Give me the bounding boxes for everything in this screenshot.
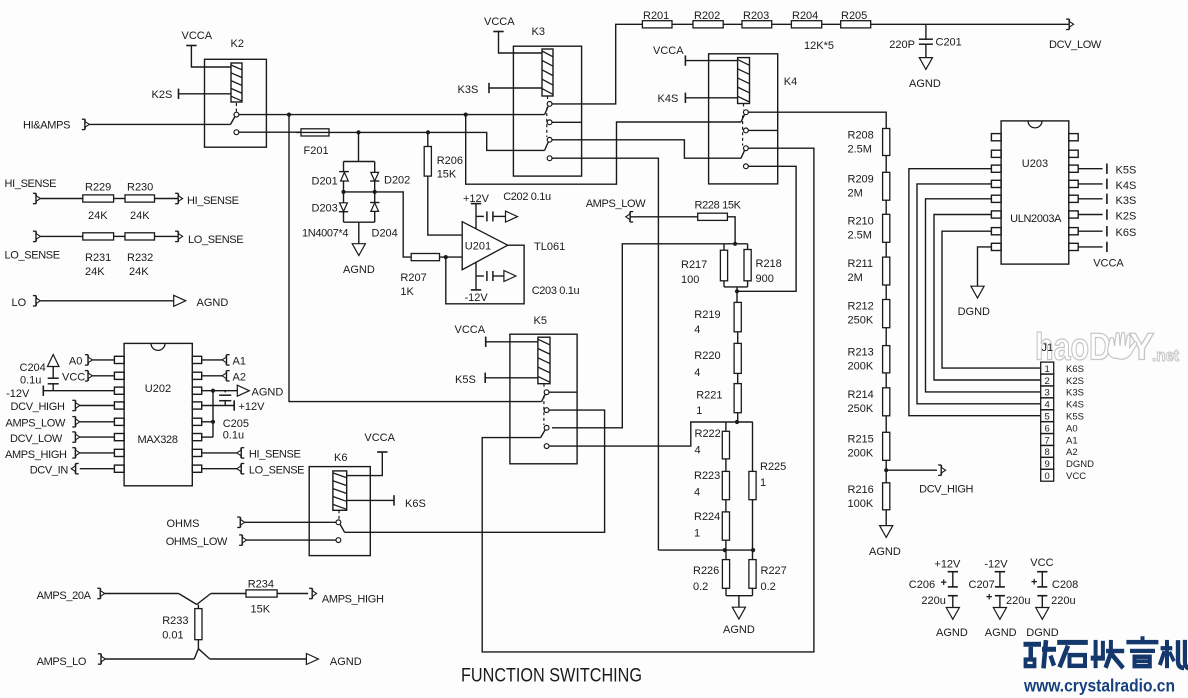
wire R204-R205 — [822, 23, 841, 25]
svg-text:ULN2003A: ULN2003A — [1010, 213, 1062, 225]
wire R231-R232 — [114, 235, 125, 237]
relay K4 coil — [738, 58, 750, 104]
svg-text:DGND: DGND — [1066, 459, 1094, 470]
ground arrow (C202) — [506, 211, 518, 222]
svg-text:R225: R225 — [760, 461, 786, 473]
svg-text:DCV_LOW: DCV_LOW — [10, 433, 63, 445]
svg-text:D203: D203 — [312, 203, 338, 215]
connector J1 label — [1042, 342, 1054, 354]
resistor R225 — [749, 422, 756, 500]
svg-text:AMPS_20A: AMPS_20A — [37, 590, 92, 602]
svg-text:8: 8 — [1045, 447, 1050, 458]
svg-text:3: 3 — [1045, 388, 1050, 399]
relay K4 box — [709, 54, 778, 184]
svg-text:R203: R203 — [743, 10, 769, 22]
svg-text:K2S: K2S — [152, 89, 173, 101]
resistor R219 — [734, 302, 741, 331]
svg-text:VCC: VCC — [62, 372, 85, 384]
relay K2 contact 2 — [234, 130, 239, 135]
svg-text:A0: A0 — [69, 356, 82, 368]
svg-text:2M: 2M — [848, 272, 863, 284]
node K6S (U203 out) — [1078, 226, 1136, 239]
relay K3 box — [513, 46, 581, 176]
svg-text:24K: 24K — [129, 266, 149, 278]
svg-text:DCV_HIGH: DCV_HIGH — [919, 484, 973, 496]
svg-text:K4S: K4S — [658, 93, 679, 105]
resistor R222 label — [695, 428, 721, 457]
connector J1 pin labels — [1066, 364, 1094, 482]
svg-text:DCV_LOW: DCV_LOW — [1049, 39, 1102, 51]
svg-text:AMPS_LOW: AMPS_LOW — [586, 198, 647, 210]
relay K2 label — [231, 38, 244, 50]
capacitor C204 — [47, 355, 59, 391]
wire R202-R203 — [723, 23, 742, 25]
svg-text:R206: R206 — [437, 155, 463, 167]
resistor R216 — [883, 483, 890, 510]
power -12V (C207) — [984, 559, 1008, 571]
svg-text:VCCA: VCCA — [1093, 258, 1124, 270]
wire bridge left upper — [343, 162, 345, 172]
wire bridge top stub — [358, 132, 360, 161]
svg-text:LO_SENSE: LO_SENSE — [5, 250, 60, 262]
resistor R201 label — [643, 10, 669, 22]
svg-text:4: 4 — [695, 445, 701, 457]
svg-text:4: 4 — [1045, 400, 1050, 411]
wire R217R218 bottom bar — [724, 281, 748, 294]
resistor R204 label — [792, 10, 818, 22]
svg-text:LO: LO — [12, 297, 27, 309]
node A0 — [69, 355, 115, 368]
wire R216 to AGND — [885, 510, 887, 526]
svg-text:VCCA: VCCA — [182, 30, 213, 42]
wire U202 pin4R to +12V — [202, 400, 265, 413]
svg-text:VCCA: VCCA — [364, 432, 395, 444]
wire fuse to K3 lower common — [334, 130, 545, 150]
wire R208 to R209 — [885, 156, 887, 173]
svg-text:0.1u: 0.1u — [223, 430, 244, 442]
svg-text:0.2: 0.2 — [693, 581, 708, 593]
svg-text:D202: D202 — [384, 175, 410, 187]
node VCC (U202) — [62, 371, 114, 384]
svg-text:AGND: AGND — [936, 627, 968, 639]
svg-text:MAX328: MAX328 — [138, 434, 178, 446]
relay K4 contact 1 — [744, 110, 749, 115]
svg-text:F201: F201 — [304, 145, 329, 157]
capacitor C208 — [1031, 572, 1048, 608]
svg-text:C206: C206 — [909, 579, 935, 591]
IC U202 part MAX328 — [138, 434, 178, 446]
svg-text:AGND: AGND — [869, 546, 901, 558]
svg-text:K2S: K2S — [1066, 376, 1084, 387]
svg-text:15K: 15K — [251, 604, 271, 616]
resistor R223 label — [694, 470, 720, 499]
svg-text:K4: K4 — [784, 76, 797, 88]
wire bridge left lower — [343, 192, 345, 203]
resistor R211 label — [848, 258, 873, 284]
svg-text:-12V: -12V — [6, 388, 30, 400]
wire K3 contact4 down to R-ladder — [552, 158, 658, 550]
svg-text:AGND: AGND — [343, 264, 375, 276]
node LO_SENSE (U202) — [202, 464, 304, 477]
svg-text:K5S: K5S — [455, 374, 476, 386]
svg-text:K5: K5 — [534, 315, 547, 327]
svg-text:R202: R202 — [694, 10, 720, 22]
relay K4 contact 2 — [744, 128, 749, 133]
ground arrow AGND (U202) — [237, 385, 283, 398]
diode D201 — [339, 172, 349, 192]
wire R234 to AMPS_HIGH — [277, 593, 308, 595]
capacitor C201 labels — [889, 37, 961, 52]
node AMPS_LOW mid — [586, 198, 647, 222]
svg-text:2.5M: 2.5M — [848, 144, 872, 156]
resistor R214 label — [848, 389, 874, 415]
wire K5 contact1 stub — [549, 391, 577, 393]
wire bridge bottom bar — [344, 221, 375, 223]
power +12V (U201) — [463, 193, 490, 229]
power VCC (C208) — [1030, 557, 1053, 569]
svg-text:R213: R213 — [848, 347, 874, 359]
wire K2K3 junction jog to K4 common1 — [466, 115, 741, 185]
resistor R220 — [734, 343, 741, 373]
svg-text:0.1u: 0.1u — [20, 375, 41, 387]
relay K3 contact 2 — [547, 120, 552, 125]
svg-text:R218: R218 — [756, 258, 782, 270]
svg-text:+12V: +12V — [239, 401, 266, 413]
ground AGND (ladder) — [723, 607, 755, 636]
svg-text:K6S: K6S — [1116, 227, 1137, 239]
relay K3 coil — [542, 49, 553, 96]
diode D204 — [370, 203, 379, 223]
title FUNCTION SWITCHING — [461, 665, 642, 687]
wire R203-R204 — [772, 23, 792, 25]
node K5S — [455, 373, 538, 386]
svg-text:-12V: -12V — [465, 292, 489, 304]
svg-text:R226: R226 — [693, 565, 719, 577]
resistor R230 — [125, 195, 155, 202]
wire AMPS_LOW to R228 — [630, 216, 698, 218]
relay K3 contact 3 — [547, 137, 552, 142]
ground DGND (C208) — [1026, 608, 1058, 640]
diode bridge value 1N4007*4 — [302, 228, 348, 240]
resistor R232 label — [127, 252, 153, 278]
node K6S — [347, 495, 426, 510]
resistor R211 — [883, 257, 890, 285]
svg-text:AMPS_LOW: AMPS_LOW — [6, 417, 67, 429]
svg-text:200K: 200K — [848, 447, 874, 459]
relay K3 blade 2 — [545, 142, 549, 151]
node K2S (coil drive) — [152, 89, 232, 101]
relay K5 blade 2 — [541, 430, 546, 438]
svg-text:R216: R216 — [848, 484, 874, 496]
svg-text:A1: A1 — [1066, 435, 1078, 446]
wire R211 to R212 — [885, 285, 887, 300]
wire bridge right upper — [374, 162, 376, 173]
resistor R206 label — [437, 155, 463, 181]
ground AGND (C207) — [985, 608, 1017, 640]
capacitor C206 — [941, 572, 959, 608]
capacitor C203 — [476, 271, 504, 281]
relay K4 contact 4 — [744, 164, 749, 169]
relay K2 contact NO — [234, 112, 239, 117]
svg-text:250K: 250K — [848, 403, 874, 415]
ground AGND (C201) — [909, 58, 941, 90]
svg-text:VCCA: VCCA — [653, 45, 684, 57]
resistor R221 — [734, 384, 741, 413]
svg-text:4: 4 — [694, 367, 700, 379]
wire OHMS_LOW to K6 — [247, 539, 336, 541]
svg-text:D204: D204 — [372, 228, 398, 240]
svg-text:R201: R201 — [643, 10, 669, 22]
svg-text:4: 4 — [694, 487, 700, 499]
wire R228 to divider — [727, 217, 735, 244]
wire U202 pin6R — [202, 436, 213, 438]
capacitor C207 — [986, 572, 1005, 608]
svg-text:R204: R204 — [792, 10, 818, 22]
resistor R215 — [883, 432, 890, 460]
wire HI&AMPS to K2 common — [89, 123, 230, 125]
wire harness U203-J1 (K5S) — [909, 169, 1041, 416]
svg-text:K4S: K4S — [1116, 180, 1137, 192]
svg-text:A0: A0 — [1066, 423, 1078, 434]
wire R206 to op-amp +input — [428, 176, 462, 235]
node AMPS_LO — [37, 654, 106, 668]
svg-text:4: 4 — [694, 324, 700, 336]
relay K6 coil — [333, 471, 347, 510]
svg-text:100K: 100K — [848, 498, 874, 510]
svg-text:HI&AMPS: HI&AMPS — [23, 120, 70, 132]
node OHMS — [167, 517, 245, 530]
op-amp U201 label — [465, 241, 491, 253]
svg-text:K5S: K5S — [1116, 165, 1137, 177]
wire R232 right — [155, 235, 179, 237]
diode D202 — [370, 172, 379, 192]
wire U202 pin3R to AGND — [202, 389, 238, 393]
relay K6 contact 2 — [336, 538, 341, 543]
svg-text:R205: R205 — [841, 10, 867, 22]
wire R206 top stub — [427, 132, 429, 146]
resistor R212 — [883, 300, 890, 328]
wire R213 to R214 — [885, 373, 887, 388]
relay K6 box — [309, 467, 370, 556]
svg-text:R227: R227 — [761, 565, 787, 577]
svg-text:+: + — [941, 577, 947, 589]
svg-text:+12V: +12V — [934, 559, 961, 571]
svg-text:R228 15K: R228 15K — [695, 200, 742, 212]
power +12V (C206) — [934, 559, 961, 571]
wire R214 to R215 — [885, 416, 887, 433]
resistor R205 label — [841, 10, 867, 22]
svg-text:K4S: K4S — [1066, 400, 1084, 411]
resistor R234 label — [248, 579, 274, 616]
resistor R204 — [791, 21, 821, 28]
wire K5 contact2 to K6 output — [345, 410, 605, 532]
resistor R208 label — [848, 130, 874, 156]
svg-text:HI_SENSE: HI_SENSE — [249, 449, 301, 461]
svg-text:C202 0.1u: C202 0.1u — [503, 191, 551, 203]
wire bridge middle bar — [341, 190, 376, 194]
IC U202 pin boxes — [114, 356, 201, 472]
svg-text:HI_SENSE: HI_SENSE — [5, 178, 57, 190]
resistor R224 — [722, 512, 729, 540]
wire ladder bottom bar — [658, 548, 755, 552]
wire harness U203-J1 (K6S) — [942, 231, 1041, 368]
wire HI_SENSE left — [40, 198, 82, 200]
svg-text:R232: R232 — [127, 252, 153, 264]
resistor R224 label — [694, 511, 720, 540]
wire node down to R219 — [736, 291, 738, 302]
wire bridge to R207 — [375, 192, 412, 257]
ground DGND (U203) — [958, 286, 990, 318]
resistor R218 — [744, 244, 751, 281]
resistor R231 label — [85, 252, 111, 278]
wire K4 contact4 to R217 bottom node — [737, 166, 796, 291]
connector J1 body — [1041, 362, 1054, 481]
svg-text:LO_SENSE: LO_SENSE — [188, 234, 243, 246]
wire R223-R224 — [725, 500, 727, 512]
wire U203 pin8L to DGND — [978, 247, 992, 286]
relay K3 label — [532, 26, 545, 38]
relay K5 contact 3 — [544, 425, 549, 430]
resistor R213 label — [848, 347, 874, 373]
wire R229-R230 — [114, 198, 125, 200]
svg-text:24K: 24K — [88, 210, 108, 222]
node HI_SENSE output — [175, 193, 239, 207]
capacitor C207 label — [969, 579, 1031, 607]
capacitor C201 — [919, 24, 933, 57]
svg-text:DCV_HIGH: DCV_HIGH — [11, 401, 65, 413]
svg-text:AGND: AGND — [985, 627, 1017, 639]
wire R210 to R211 — [885, 242, 887, 257]
svg-text:K3S: K3S — [1116, 195, 1137, 207]
svg-text:LO_SENSE: LO_SENSE — [249, 465, 304, 477]
resistor R228 label — [695, 200, 742, 212]
svg-text:DCV_IN: DCV_IN — [30, 465, 69, 477]
svg-text:C208: C208 — [1052, 579, 1078, 591]
resistor R210 — [883, 214, 890, 242]
relay K6 contact 1 — [336, 520, 341, 525]
wire K2 branch down to K5 common1 — [289, 115, 542, 402]
node HI_SENSE input terminal — [33, 193, 41, 203]
power VCCA (K2 coil supply) — [182, 30, 232, 67]
svg-text:AGND: AGND — [197, 297, 229, 309]
svg-text:1: 1 — [696, 405, 702, 417]
svg-text:7: 7 — [1045, 435, 1050, 446]
op-amp U201 — [462, 222, 508, 270]
svg-text:1: 1 — [694, 528, 700, 540]
power -12V (U202) — [6, 386, 114, 401]
wire K2 lower contact to fuse — [239, 131, 301, 133]
svg-text:0: 0 — [1045, 471, 1050, 482]
IC U202 body — [124, 343, 192, 485]
svg-text:9: 9 — [1045, 459, 1050, 470]
svg-text:FUNCTION SWITCHING: FUNCTION SWITCHING — [461, 665, 642, 687]
svg-text:R207: R207 — [400, 272, 426, 284]
relay K5 contact 4 — [544, 444, 549, 449]
wire R221 to bar — [735, 413, 739, 424]
svg-text:AMPS_HIGH: AMPS_HIGH — [5, 449, 67, 461]
svg-text:220u: 220u — [1006, 595, 1030, 607]
relay K3 linkage — [546, 96, 549, 137]
watermark www.crystalradio.cn — [1023, 676, 1175, 696]
resistor R202 — [693, 21, 723, 28]
svg-text:220u: 220u — [1051, 595, 1075, 607]
wire K4 contact3 long loop to K5 common2 — [482, 148, 814, 652]
svg-text:DGND: DGND — [958, 306, 990, 318]
svg-text:R222: R222 — [695, 428, 721, 440]
node K3S — [458, 83, 543, 96]
wire R230 right — [155, 198, 179, 200]
svg-text:R234: R234 — [248, 579, 274, 591]
node AMPS_20A — [37, 588, 105, 602]
svg-text:U203: U203 — [1022, 158, 1048, 170]
relay K5 coil — [538, 337, 550, 384]
svg-text:AGND: AGND — [330, 656, 362, 668]
node HI_SENSE label — [5, 178, 57, 190]
IC U203 body — [1001, 121, 1069, 264]
svg-text:100: 100 — [681, 274, 699, 286]
svg-text:VCCA: VCCA — [484, 16, 515, 28]
node AMPS_HIGH (U202) — [5, 448, 114, 461]
node OHMS_LOW — [166, 535, 247, 548]
op-amp U201 part TL061 — [534, 241, 565, 253]
svg-text:220P: 220P — [889, 39, 915, 51]
resistor R201 — [642, 21, 672, 28]
svg-text:C207: C207 — [969, 579, 995, 591]
power VCCA (K4) — [653, 45, 738, 66]
resistor R229 label — [85, 182, 111, 223]
resistor R226 label — [693, 565, 719, 593]
wire R205 to DCV_LOW — [871, 23, 1070, 25]
resistor R203 — [742, 21, 772, 28]
wire OHMS to K6 — [245, 521, 336, 523]
wire R225 to bottom bar — [752, 500, 754, 550]
ground AGND (LO) — [174, 295, 229, 309]
relay K2 box — [205, 59, 267, 147]
capacitor C208 label — [1051, 579, 1078, 607]
svg-text:R210: R210 — [848, 215, 874, 227]
resistor R217 label — [681, 259, 707, 286]
relay K4 blade 2 — [741, 150, 745, 158]
svg-text:220u: 220u — [921, 595, 945, 607]
svg-text:200K: 200K — [848, 361, 874, 373]
resistor R216 label — [848, 484, 874, 510]
resistor R202 label — [694, 10, 720, 22]
resistor R228 — [698, 213, 728, 220]
svg-text:R231: R231 — [85, 252, 111, 264]
node AMPS_HIGH output — [309, 588, 384, 605]
svg-text:K3S: K3S — [1066, 388, 1084, 399]
svg-text:5: 5 — [1045, 412, 1050, 423]
ground arrow (C203) — [504, 271, 516, 282]
relay K4 label — [784, 76, 797, 88]
relay K6 linkage — [338, 510, 340, 519]
chain value 12K*5 — [804, 40, 834, 52]
wire R209 to R210 — [885, 200, 887, 214]
resistor R230 label — [127, 182, 153, 223]
wire K5 contact4 to R222 bar — [549, 422, 753, 446]
node HI&AMPS input — [23, 119, 89, 131]
IC U203 label — [1022, 158, 1048, 170]
relay K4 linkage — [742, 104, 745, 146]
svg-text:R219: R219 — [694, 309, 720, 321]
resistor R229 — [83, 195, 114, 202]
svg-text:C204: C204 — [20, 362, 46, 374]
svg-text:+: + — [1031, 577, 1037, 589]
resistor R209 — [883, 172, 890, 200]
resistor R212 label — [848, 301, 874, 327]
wire bridge right lower — [374, 192, 376, 203]
wire LO to AGND — [40, 300, 173, 302]
